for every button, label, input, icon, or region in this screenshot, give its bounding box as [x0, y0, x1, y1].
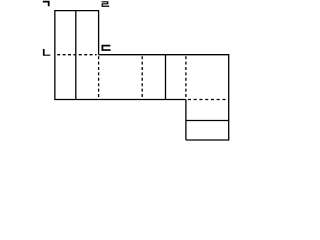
fold line horizontal bottom right: [188, 99, 228, 101]
mark glyph 2 top-right: [102, 1, 110, 7]
fold line vertical x98.6: [98, 56, 100, 99]
right vertical edge upper solid: [98, 10, 100, 55]
solid divider in strip: [165, 55, 167, 100]
left vertical edge: [54, 10, 56, 99]
fold line vertical x142: [141, 56, 143, 99]
box net diagram: [0, 0, 232, 145]
middle vertical divider: [75, 11, 77, 100]
bottom-right box bottom edge: [186, 139, 229, 141]
mark glyph L left: [43, 49, 50, 56]
mark corner glyph top-left: [43, 1, 50, 6]
fold line vertical x186: [185, 56, 187, 99]
right outer edge: [228, 54, 230, 140]
strip bottom edge solid: [54, 99, 186, 101]
top face outline top edge: [55, 10, 99, 12]
strip top edge solid: [99, 54, 229, 56]
bottom-right box left edge: [185, 100, 187, 141]
fold line horizontal in tall rect: [57, 54, 96, 56]
bottom-right box divider: [186, 120, 229, 122]
mark glyph C right: [102, 45, 111, 51]
